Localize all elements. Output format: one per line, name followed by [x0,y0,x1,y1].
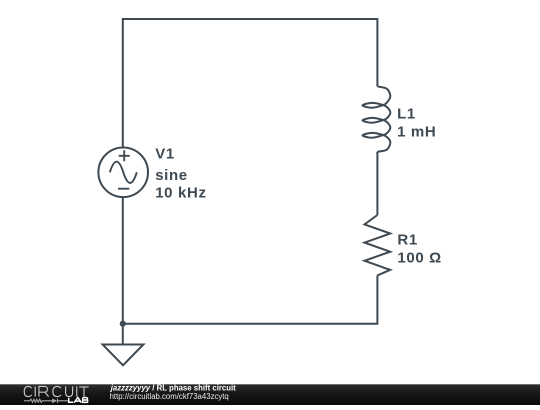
node junction dot [120,321,126,327]
logo letter C [53,386,61,396]
svg-text:1 mH: 1 mH [397,123,436,140]
svg-text:sine: sine [155,167,188,184]
logo tagline line with resistor and diode [24,399,68,403]
logo letter C [24,386,31,396]
logo letter B [83,398,88,403]
ground symbol triangle [103,345,144,366]
inductor L1 coil [363,83,391,155]
logo letter R [39,386,49,396]
V1 sine wave [110,162,137,183]
resistor R1 zigzag [365,215,391,275]
logo letter T [79,387,89,397]
svg-text:10 kHz: 10 kHz [155,185,206,202]
V1 minus sign [118,188,129,190]
wire top loop [123,19,378,148]
logo letter I [76,386,78,396]
wire source bottom to ground [122,197,124,344]
logo diode bar [56,399,58,403]
wire between inductor and resistor [376,155,378,215]
logo letter U [66,386,73,396]
svg-text:V1: V1 [155,146,175,163]
V1 plus sign [119,150,130,161]
svg-text:100 Ω: 100 Ω [397,250,441,267]
svg-text:L1: L1 [397,106,416,123]
svg-text:http://circuitlab.com/ckf73a43: http://circuitlab.com/ckf73a43zcytq [110,392,229,401]
svg-text:R1: R1 [397,232,417,249]
logo diode triangle [52,398,57,403]
wire bottom right to node [123,275,378,323]
voltage source V1 circle [98,148,148,198]
footer bar [0,384,540,405]
logo letter L [69,398,74,403]
logo LAB letters [69,398,88,403]
logo letter I [34,386,36,396]
logo letter A [74,398,81,403]
logo wordmark CIRCUIT (custom outline letters) [24,386,88,396]
